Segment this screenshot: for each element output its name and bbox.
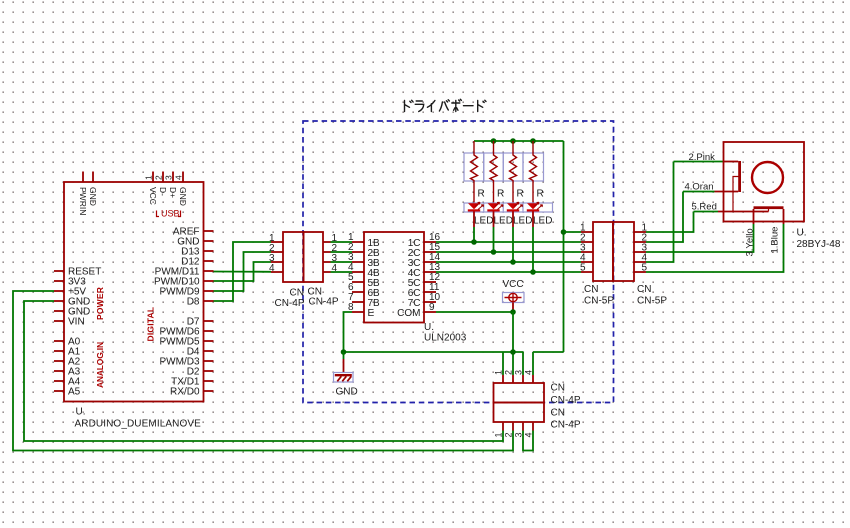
svg-text:U.: U. — [76, 407, 86, 418]
svg-text:VIN: VIN — [68, 317, 85, 328]
pin 5 (5B) stub — [352, 281, 364, 283]
mcu A1 ARDUINO_DUEMILANOVE outline — [64, 182, 204, 402]
pin 5 (CN-5P right) stub — [634, 271, 646, 273]
svg-text:LED: LED — [533, 216, 552, 227]
pin 3 (bottom CN-4P lower) stub — [522, 422, 524, 431]
svg-text:LED: LED — [513, 216, 532, 227]
junction rail to CN-5P pin1 — [561, 229, 567, 235]
junction E-GND — [341, 349, 347, 355]
pin VCC (usb pin 1) stub — [152, 172, 154, 183]
svg-text:9: 9 — [429, 302, 435, 313]
pin 16 (1C) stub — [424, 241, 436, 243]
svg-text:R: R — [537, 189, 544, 200]
svg-text:VCC: VCC — [148, 187, 158, 205]
wire 1C output row to CN-5P pin 2 — [436, 241, 581, 243]
pin A2 (arduino left) stub — [54, 360, 64, 362]
svg-text:CN: CN — [584, 284, 598, 295]
wire E to ground node — [344, 312, 353, 352]
driver board boundary (dashed) — [303, 121, 614, 403]
svg-text:28BYJ-48: 28BYJ-48 — [797, 239, 841, 250]
pin 12 (5C) stub — [424, 281, 436, 283]
pin GND (arduino top) stub — [92, 172, 94, 183]
svg-text:CN-4P: CN-4P — [551, 395, 581, 406]
pin 2 (CN-5P left) stub — [581, 241, 593, 243]
connector CN CN-4P top box (board side) — [494, 383, 545, 403]
pin 2 (CN-4P left) stub — [271, 251, 283, 253]
pin 1 (CN-5P left) stub — [581, 231, 593, 233]
svg-text:GND: GND — [336, 387, 358, 398]
svg-text:ANALOG.IN: ANALOG.IN — [95, 342, 105, 388]
svg-text:D+: D+ — [168, 187, 178, 198]
wire COM to VCC node — [436, 311, 513, 313]
pin GND (arduino left) stub — [54, 310, 64, 312]
svg-text:RX/D0: RX/D0 — [170, 387, 200, 398]
wire LED4 cathode down — [532, 212, 534, 228]
wire pin2 to 4.Oran — [646, 192, 683, 243]
svg-text:5.Red: 5.Red — [692, 202, 717, 213]
svg-text:4: 4 — [269, 263, 275, 274]
pin 6 (6B) stub — [352, 291, 364, 293]
svg-text:VCC: VCC — [502, 279, 523, 290]
junction LED3 to row — [510, 259, 516, 265]
pin PWM/D10 (arduino right) stub — [204, 280, 214, 282]
ic U ULN2003 outline — [364, 232, 424, 323]
connector CN CN-5P right box — [613, 222, 634, 281]
wire CN4 pin3 up — [522, 352, 524, 375]
svg-text:1: 1 — [494, 432, 504, 437]
svg-text:3: 3 — [514, 370, 524, 375]
pin 2 (CN-5P right) stub — [634, 241, 646, 243]
wire +5V to CN4 pin2 — [13, 291, 513, 451]
pin PWM/D6 (arduino right) stub — [204, 330, 214, 332]
svg-text:CN: CN — [290, 288, 304, 299]
pin A1 (arduino left) stub — [54, 350, 64, 352]
motor rotor circle — [752, 162, 783, 193]
svg-text:3: 3 — [514, 432, 524, 437]
pin 10 (7C) stub — [424, 301, 436, 303]
svg-text:R: R — [478, 189, 485, 200]
pin 3 (3B) stub — [352, 261, 364, 263]
pin 1 (CN-5P right) stub — [634, 231, 646, 233]
wire vcc-rail row to pin4 — [533, 351, 564, 353]
led LED4 symbol — [527, 203, 539, 209]
pin 11 (6C) stub — [424, 291, 436, 293]
wire LED3 cathode down — [512, 212, 514, 228]
svg-text:1.Blue: 1.Blue — [770, 227, 781, 254]
ground GND symbol — [343, 352, 345, 359]
svg-text:ARDUINO_DUEMILANOVE: ARDUINO_DUEMILANOVE — [75, 419, 202, 430]
svg-text:2: 2 — [504, 370, 514, 375]
pin 9 (COM) stub — [424, 311, 436, 313]
wire D8 to CN1 pin1 — [214, 242, 272, 301]
junction VCC-COM — [510, 309, 516, 315]
pin PWM/D9 (arduino right) stub — [204, 290, 214, 292]
pin PWRIN (arduino top) stub — [82, 172, 84, 183]
wire CN-4P pin 2 to ULN2003 — [331, 251, 353, 253]
pin RX/D0 (arduino right) stub — [204, 390, 214, 392]
wire 5.Red horizontal — [694, 211, 719, 213]
pin RESET (arduino left) stub — [54, 270, 64, 272]
pin 3 (bottom CN-4P upper) stub — [522, 375, 524, 383]
wire CN4 pin4 up — [532, 352, 534, 375]
pin GND (arduino right) stub — [204, 240, 214, 242]
wire CN-4P pin 1 to ULN2003 — [331, 241, 353, 243]
pin 2 (bottom CN-4P lower) stub — [512, 422, 514, 431]
pin D+ (usb pin 3) stub — [172, 172, 174, 183]
svg-text:DIGITAL: DIGITAL — [146, 307, 156, 342]
resistor R1 zigzag — [471, 141, 478, 203]
svg-text:COM: COM — [397, 308, 420, 319]
svg-text:R: R — [517, 189, 524, 200]
motor center tap vertical coil — [733, 177, 740, 212]
pin PWM/D3 (arduino right) stub — [204, 360, 214, 362]
svg-text:A5: A5 — [68, 387, 81, 398]
wire CN4 pin1 up — [502, 352, 504, 375]
svg-text:U.: U. — [424, 322, 434, 333]
pin A4 (arduino left) stub — [54, 380, 64, 382]
resistor R4 zigzag — [530, 141, 537, 203]
wire VCC rail (resistor tops) — [474, 140, 564, 142]
junction LED1 to row — [471, 239, 477, 245]
svg-text:1: 1 — [494, 370, 504, 375]
pin 14 (3C) stub — [424, 261, 436, 263]
svg-text:POWER: POWER — [95, 287, 105, 320]
pin 13 (4C) stub — [424, 271, 436, 273]
junction LED4 to row — [530, 269, 536, 275]
wire pin1 to 5.Red — [646, 212, 694, 233]
wire 2C output row to CN-5P pin 3 — [436, 251, 581, 253]
pin TX/D1 (arduino right) stub — [204, 380, 214, 382]
svg-text:U.: U. — [797, 228, 807, 239]
pin 2 (2B) stub — [352, 251, 364, 253]
pin 1 (bottom CN-4P lower) stub — [502, 422, 504, 431]
power VCC symbol — [503, 293, 525, 303]
wire VCC vertical to power row — [512, 312, 514, 375]
connector CN CN-5P left box — [593, 222, 613, 281]
svg-text:D-: D- — [158, 187, 168, 196]
connector CN CN-4P bottom box (cable side) — [494, 403, 545, 423]
svg-text:CN: CN — [551, 383, 565, 394]
pin 3 (CN-4P left) stub — [271, 261, 283, 263]
pin 4 (bottom CN-4P upper) stub — [532, 375, 534, 383]
svg-text:2: 2 — [154, 175, 164, 180]
connector CN CN-4P right box — [304, 232, 324, 282]
pin A5 (arduino left) stub — [54, 390, 64, 392]
svg-text:PWRIN: PWRIN — [78, 187, 88, 215]
svg-text:CN-4P: CN-4P — [551, 420, 581, 431]
svg-text:CN-4P: CN-4P — [274, 298, 304, 309]
resistor symbol boxes — [464, 153, 484, 181]
pin AREF (arduino right) stub — [204, 230, 214, 232]
wire 4C output row to CN-5P pin 5 — [436, 271, 581, 273]
pin D12 (arduino right) stub — [204, 260, 214, 262]
junction rail-col3 — [510, 138, 516, 144]
wire VCC rail drop to CN-5P pin1 and power row — [563, 141, 565, 352]
svg-text:5: 5 — [580, 263, 586, 274]
pin 3.Yello stub — [753, 209, 755, 224]
svg-text:CN-4P: CN-4P — [309, 297, 339, 308]
wire pin3 to 3.Yello — [646, 224, 754, 252]
wire LED1 cathode down — [473, 212, 475, 228]
pin 5 (CN-5P left) stub — [581, 271, 593, 273]
pin D13 (arduino right) stub — [204, 250, 214, 252]
pin 2 (bottom CN-4P upper) stub — [512, 375, 514, 383]
motor center tap horizontal coil — [768, 209, 770, 212]
svg-text:R: R — [497, 189, 504, 200]
pin PWM/D5 (arduino right) stub — [204, 340, 214, 342]
wire pin4 to 2.Pink — [646, 162, 674, 263]
wire jumper CN4 pin3-pin4 — [523, 431, 533, 451]
pin 3 (CN-4P right) stub — [323, 261, 331, 263]
connector CN CN-4P left box — [283, 232, 304, 282]
wire 3C output row to CN-5P pin 4 — [436, 261, 581, 263]
svg-text:2: 2 — [504, 432, 514, 437]
junction LED2 to row — [491, 249, 497, 255]
title text (katakana driver board) — [405, 100, 413, 111]
wire 2.Pink horizontal — [674, 161, 724, 163]
pin 1 (1B) stub — [352, 241, 364, 243]
wire PWM/D11 to CN1 pin4 — [214, 271, 272, 273]
motor U 28BYJ-48 outline — [724, 142, 805, 222]
svg-text:4: 4 — [174, 175, 184, 180]
pin D2 (arduino right) stub — [204, 370, 214, 372]
pin 7 (7B) stub — [352, 301, 364, 303]
pin PWM/D11 (arduino right) stub — [204, 270, 214, 272]
svg-text:GND: GND — [178, 187, 188, 206]
pin 8 (E) stub — [352, 311, 364, 313]
led symbol strip box — [464, 203, 553, 212]
svg-text:GND: GND — [88, 187, 98, 206]
svg-text:LED: LED — [494, 216, 513, 227]
pin D7 (arduino right) stub — [204, 320, 214, 322]
svg-text:CN: CN — [637, 284, 651, 295]
svg-text:USB: USB — [161, 209, 180, 219]
svg-text:1: 1 — [144, 175, 154, 180]
pin +5V (arduino left) stub — [54, 290, 64, 292]
wire PWM/D10 to CN1 pin3 — [214, 262, 272, 281]
wire pin5 to 1.Blue — [646, 224, 784, 272]
pin GND (arduino left) stub — [54, 300, 64, 302]
pin A0 (arduino left) stub — [54, 340, 64, 342]
pin 4 (CN-4P left) stub — [271, 271, 283, 273]
svg-text:3.Yello: 3.Yello — [745, 228, 756, 256]
junction rail-col4 — [530, 138, 536, 144]
pin 4 (4B) stub — [352, 271, 364, 273]
svg-text:CN-5P: CN-5P — [637, 296, 667, 307]
motor coil bar horizontal — [754, 206, 784, 209]
pin 3V3 (arduino left) stub — [54, 280, 64, 282]
pin D8 (arduino right) stub — [204, 300, 214, 302]
pin 4 (CN-4P right) stub — [323, 271, 331, 273]
pin 15 (2C) stub — [424, 251, 436, 253]
wire GND to CN4 pin1 — [24, 301, 503, 441]
pin 1.Blue stub — [783, 209, 785, 224]
wire 4.Oran horizontal — [683, 191, 715, 193]
junction rail-col2 — [491, 138, 497, 144]
junction VCC row — [510, 349, 516, 355]
svg-text:4: 4 — [524, 432, 534, 437]
led LED1 symbol — [468, 203, 480, 209]
motor coil bar vertical — [738, 161, 741, 192]
led LED2 symbol — [488, 203, 500, 209]
pin 5.Red stub — [718, 211, 769, 213]
pin D- (usb pin 2) stub — [162, 172, 164, 183]
svg-text:D8: D8 — [187, 297, 200, 308]
pin 1 (bottom CN-4P upper) stub — [502, 375, 504, 383]
pin 3 (CN-5P right) stub — [634, 251, 646, 253]
pin D4 (arduino right) stub — [204, 350, 214, 352]
pin 4.Oran stub — [715, 191, 739, 193]
resistor R3 zigzag — [510, 141, 517, 203]
svg-text:LED: LED — [474, 216, 493, 227]
pin 1 (CN-4P left) stub — [271, 241, 283, 243]
svg-text:CN-5P: CN-5P — [584, 296, 614, 307]
svg-text:2.Pink: 2.Pink — [689, 152, 716, 163]
resistor R2 zigzag — [490, 141, 497, 203]
wire LED2 cathode down — [493, 212, 495, 228]
svg-text:CN: CN — [551, 408, 565, 419]
pin A3 (arduino left) stub — [54, 370, 64, 372]
svg-text:4: 4 — [524, 370, 534, 375]
wire CN-4P pin 4 to ULN2003 — [331, 271, 353, 273]
wire VCC symbol stub — [512, 303, 514, 313]
wire rail to CN-5P pin1 — [564, 231, 582, 233]
pin 1 (CN-4P right) stub — [323, 241, 331, 243]
svg-text:E: E — [368, 308, 375, 319]
svg-text:ULN2003: ULN2003 — [424, 333, 467, 344]
svg-text:4.Oran: 4.Oran — [685, 182, 714, 193]
wire ground/vcc horizontal row — [344, 351, 524, 353]
pin 2.Pink stub — [724, 161, 739, 163]
pin 4 (bottom CN-4P lower) stub — [532, 422, 534, 431]
pin 4 (CN-5P left) stub — [581, 261, 593, 263]
led LED3 symbol — [507, 203, 519, 209]
pin 4 (CN-5P right) stub — [634, 261, 646, 263]
pin 3 (CN-5P left) stub — [581, 251, 593, 253]
svg-text:3: 3 — [164, 175, 174, 180]
wire CN-4P pin 3 to ULN2003 — [331, 261, 353, 263]
pin 2 (CN-4P right) stub — [323, 251, 331, 253]
pin VIN (arduino left) stub — [54, 320, 64, 322]
pin GND (usb pin 4) stub — [182, 172, 184, 183]
wire PWM/D9 to CN1 pin2 — [214, 252, 272, 291]
